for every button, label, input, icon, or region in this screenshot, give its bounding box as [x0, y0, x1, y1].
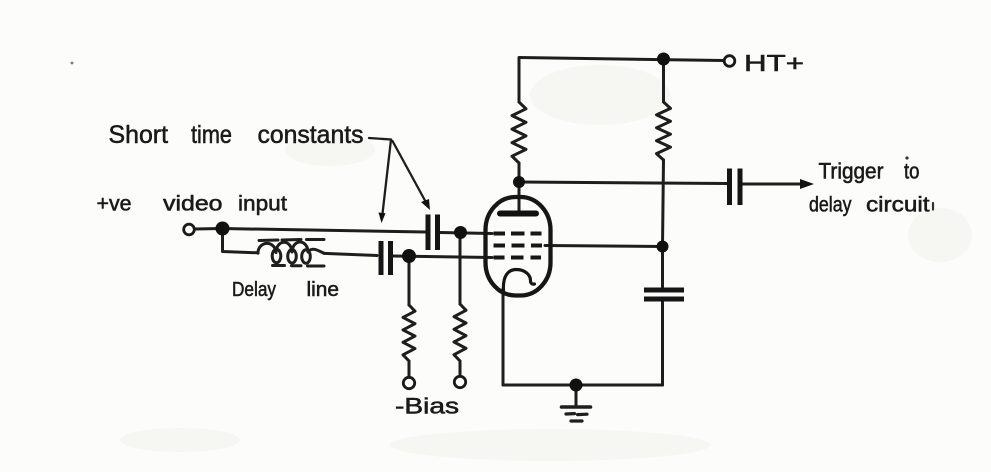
svg-text:Delay: Delay [232, 279, 276, 301]
svg-text:circuit: circuit [866, 194, 930, 217]
svg-text:Short: Short [109, 121, 169, 149]
svg-text:constants: constants [258, 121, 364, 149]
svg-text:+ve: +ve [97, 193, 132, 216]
svg-text:time: time [191, 121, 232, 149]
svg-text:input: input [238, 193, 287, 216]
svg-text:HT+: HT+ [744, 50, 804, 76]
svg-text:to: to [904, 159, 920, 184]
svg-text:delay: delay [809, 194, 852, 217]
svg-text:Trigger: Trigger [819, 159, 884, 184]
svg-text:video: video [163, 193, 223, 216]
svg-text:-Bias: -Bias [395, 394, 459, 419]
svg-text:line: line [307, 279, 340, 301]
